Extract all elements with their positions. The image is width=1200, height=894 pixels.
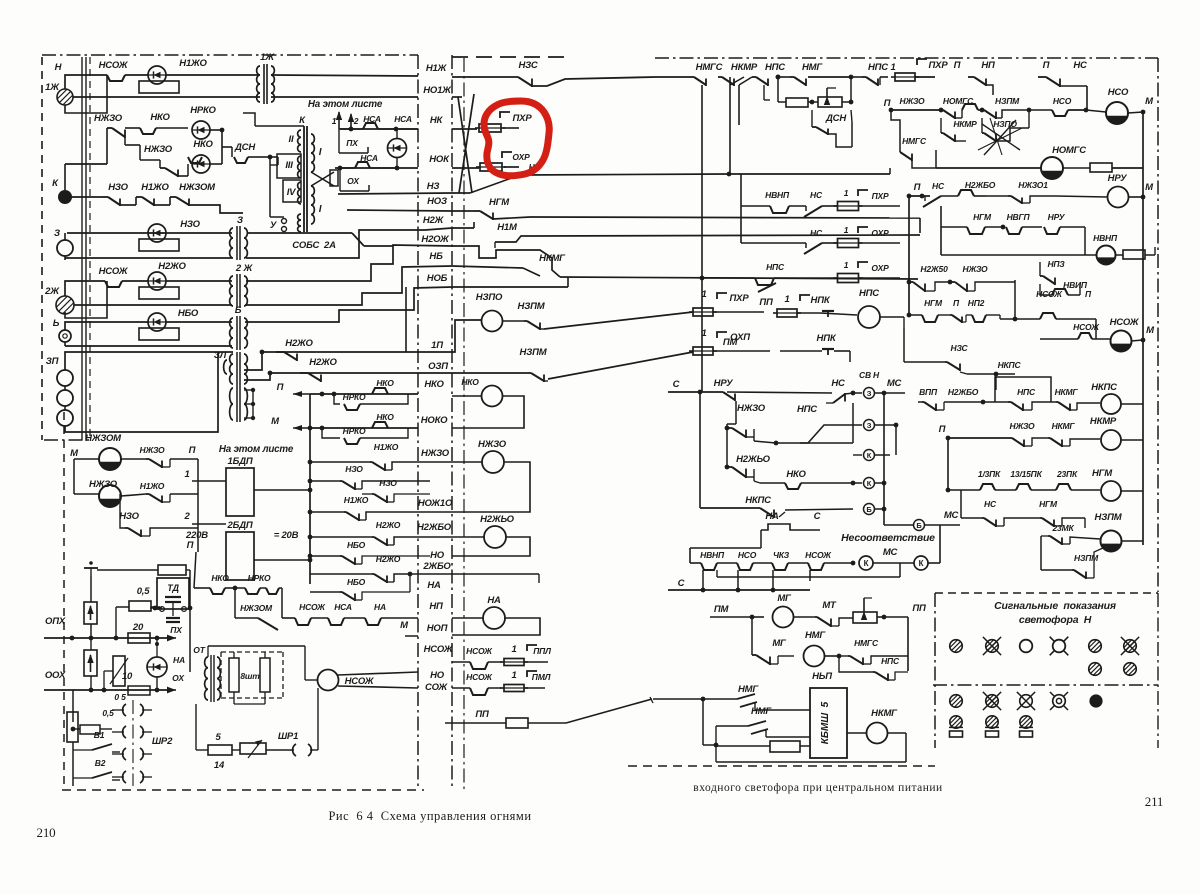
wire: [64, 164, 66, 190]
wire: [524, 320, 527, 322]
wire: [266, 64, 268, 104]
contact НВНП fuse row: [770, 206, 789, 213]
svg-text:2: 2: [183, 511, 190, 522]
wire: [156, 677, 158, 690]
wire: [1019, 726, 1033, 728]
svg-text:НЗО: НЗО: [180, 219, 200, 230]
wire: [225, 587, 235, 589]
svg-text:НЖЗО: НЖЗО: [94, 113, 123, 124]
wire: [1040, 284, 1052, 295]
junction dot: [155, 642, 159, 646]
winding У: [298, 214, 301, 232]
svg-text:НМГС: НМГС: [902, 136, 927, 146]
wire: [504, 687, 524, 689]
svg-text:Н1ЖО: Н1ЖО: [140, 481, 165, 491]
wire: [995, 489, 1016, 491]
wire: [727, 427, 732, 429]
svg-text:НС: НС: [1073, 60, 1087, 71]
wire: [154, 204, 170, 206]
wire Н2ОЖ from 2Ж: [246, 245, 452, 281]
wire: [386, 496, 388, 504]
svg-text:НГМ: НГМ: [1039, 499, 1058, 509]
svg-text:ПХ: ПХ: [170, 625, 183, 635]
wire: [727, 423, 736, 425]
wire: [752, 654, 756, 656]
wire: [153, 199, 155, 207]
wire ПМ: [780, 350, 822, 352]
wire: [1008, 401, 1011, 403]
wire: [716, 725, 748, 727]
svg-text:НКМГ: НКМГ: [871, 708, 898, 719]
wire: [1048, 437, 1050, 439]
wire: [396, 129, 398, 138]
wire: [142, 776, 152, 778]
wire: [1121, 490, 1143, 492]
svg-text:НКО: НКО: [211, 573, 229, 583]
wire: [911, 154, 913, 162]
wire: [830, 619, 832, 628]
wire: [1024, 445, 1032, 447]
svg-text:МС: МС: [944, 510, 959, 521]
wire: [1084, 227, 1086, 255]
wire: [1022, 226, 1042, 228]
transformer З left: [230, 228, 233, 258]
svg-text:НЗО: НЗО: [379, 478, 397, 488]
wire Н2ОЖ jog: [452, 246, 528, 258]
wire: [186, 569, 190, 571]
wire: [1079, 284, 1081, 295]
resistor above ТД: [158, 565, 186, 575]
wire: [801, 482, 853, 484]
wire НЖЗОМ row: [235, 617, 258, 619]
wire: [244, 403, 253, 405]
svg-text:НРКО: НРКО: [343, 392, 366, 402]
wire bracket top: [727, 392, 832, 393]
svg-text:I: I: [319, 147, 322, 158]
junction dot: [114, 636, 119, 641]
svg-text:ПМЛ: ПМЛ: [532, 672, 551, 682]
wire R0.5: [116, 606, 129, 608]
contact НКО jog2: [372, 422, 388, 428]
wire: [1086, 86, 1088, 110]
wire НГМ long: [530, 217, 920, 218]
junction dot: [907, 313, 912, 318]
wire: [986, 314, 1000, 316]
wire: [146, 493, 149, 495]
wire: [1071, 489, 1100, 491]
vertical x282: [281, 588, 283, 618]
wire: [812, 126, 816, 128]
svg-text:23ПК: 23ПК: [1056, 469, 1078, 479]
legend lamp yellow crossed: [986, 640, 999, 653]
wire: [166, 617, 180, 619]
wire: [753, 469, 755, 481]
junction: [727, 172, 732, 177]
wire: [474, 210, 480, 212]
circle: [1053, 695, 1066, 708]
wire НЗ right: [452, 192, 470, 194]
wire ДСН down: [269, 157, 271, 217]
wire: [150, 528, 198, 536]
wire: [899, 151, 901, 153]
wire НКО circle row: [452, 395, 481, 397]
wire: [264, 652, 266, 658]
wire: [777, 312, 797, 314]
svg-text:ПП: ПП: [475, 709, 489, 720]
lamp НРКО: [192, 121, 210, 139]
wire: [723, 392, 735, 400]
contact НСО bridge: [737, 563, 753, 570]
wire: [877, 616, 884, 618]
wire: [342, 592, 355, 600]
contact 1/3ПК: [980, 484, 995, 490]
svg-text:1: 1: [890, 62, 895, 73]
junction dot: [701, 697, 706, 702]
wire: [524, 687, 545, 689]
wire: [296, 354, 298, 362]
svg-text:НКМР: НКМР: [731, 62, 758, 73]
wire: [752, 616, 764, 618]
svg-text:НРКО: НРКО: [190, 105, 216, 116]
wire: [726, 424, 728, 428]
wire: [764, 99, 770, 101]
wire: [895, 672, 908, 680]
vertical НРУ to НЖЗО: [735, 401, 737, 424]
tap circle 1: [282, 219, 287, 224]
wire К: [65, 196, 102, 198]
vertical НПС-ДСН: [777, 77, 779, 102]
svg-text:НЗО: НЗО: [345, 464, 363, 474]
border top-left box: [42, 54, 418, 56]
wire: [785, 509, 853, 510]
wire НСА row: [339, 128, 363, 130]
wire: [531, 79, 533, 88]
svg-text:23МК: 23МК: [1052, 523, 1075, 533]
svg-text:НПС: НПС: [766, 262, 785, 272]
wire БДП out 1: [254, 489, 310, 491]
wire: [913, 282, 925, 291]
wire НЗ long: [520, 174, 729, 175]
svg-text:На этом листе: На этом листе: [219, 444, 294, 455]
wire: [1074, 570, 1086, 578]
svg-text:НРУ: НРУ: [714, 378, 734, 389]
contact Н2ЖБО row2: [958, 190, 974, 196]
wire: [746, 436, 754, 438]
svg-text:П: П: [939, 424, 946, 435]
terminal К: [58, 190, 72, 204]
wire: [805, 206, 807, 211]
wire: [527, 645, 537, 651]
ladder spine: [309, 394, 311, 584]
svg-text:ПП: ПП: [912, 603, 926, 614]
svg-text:М: М: [271, 416, 280, 427]
svg-text:МГ: МГ: [777, 593, 792, 604]
wire: [753, 429, 755, 441]
wire: [935, 282, 950, 291]
svg-text:НМГ: НМГ: [802, 62, 823, 73]
junction row3: [700, 276, 705, 281]
wire: [480, 166, 502, 168]
relay МГ: [773, 607, 794, 628]
svg-text:МС: МС: [887, 378, 902, 389]
wire: [112, 128, 125, 137]
wire НБ from 2Ж bottom: [245, 266, 452, 305]
wire mid block: [776, 442, 853, 444]
wire: [102, 196, 108, 198]
wire: [1032, 402, 1056, 410]
rung НЖЗО: [310, 461, 370, 463]
junction dot: [939, 108, 944, 113]
vertical x1015: [1014, 280, 1016, 319]
wire: [730, 77, 744, 85]
svg-text:НЖЗО: НЖЗО: [144, 144, 173, 155]
wire НЗС 2: [904, 361, 945, 363]
contact НСОЖ П: [1040, 313, 1056, 319]
wire: [945, 361, 947, 363]
wire: [1121, 637, 1139, 655]
wire НОБ from Б: [245, 287, 452, 322]
circle: [1056, 698, 1061, 703]
8шт box left: [220, 652, 222, 698]
wire: [943, 110, 955, 118]
svg-text:НСОЖ: НСОЖ: [466, 672, 493, 682]
wire: [150, 607, 162, 609]
wire НКО row: [760, 482, 785, 484]
svg-text:светофора Н: светофора Н: [1019, 614, 1092, 626]
capacitor lower: [166, 621, 180, 623]
border left box bottom: [44, 439, 90, 441]
wire: [912, 160, 936, 168]
wire: [1086, 577, 1094, 579]
junction dot: [1084, 108, 1089, 113]
wire: [1011, 402, 1023, 410]
wire: [518, 77, 532, 86]
wire: [354, 594, 356, 602]
wire: [1060, 85, 1087, 87]
relay НСО: [1106, 102, 1128, 124]
junction dot: [849, 75, 854, 80]
wire: [187, 164, 189, 176]
wire: [751, 729, 768, 734]
junction dot: [851, 561, 856, 566]
wire: [1121, 637, 1139, 655]
legend lamp white: [1020, 640, 1033, 653]
wire: [960, 372, 967, 374]
wire: [1043, 276, 1055, 284]
junction dot: [308, 479, 313, 484]
wire: [210, 163, 222, 165]
resistor НВНП: [1123, 250, 1145, 259]
svg-text:НПС: НПС: [868, 62, 888, 73]
svg-text:НВГП: НВГП: [1007, 212, 1031, 222]
wire: [753, 562, 772, 564]
wire: [790, 76, 794, 78]
core bar 2: [306, 126, 308, 232]
wire: [705, 79, 707, 87]
svg-text:1: 1: [844, 188, 849, 198]
wire: [928, 562, 940, 564]
svg-text:М: М: [1145, 182, 1154, 193]
contact НСОЖ fuse: [470, 662, 488, 669]
relay НМГ: [804, 646, 825, 667]
wire: [370, 461, 372, 463]
svg-text:НП: НП: [981, 60, 995, 71]
legend b5 black: [1089, 694, 1102, 707]
wire: [387, 544, 394, 546]
box 2Ж: [65, 281, 107, 318]
transformer Б right: [244, 318, 247, 348]
legend lamp 2nd row b: [1124, 663, 1137, 676]
wire: [839, 618, 853, 626]
junction dot: [89, 688, 94, 693]
wire: [500, 661, 504, 663]
wire: [64, 233, 66, 240]
wire 2: [192, 523, 226, 525]
lamp Н1ЖО: [148, 66, 166, 84]
wire: [689, 311, 693, 313]
wire: [1070, 409, 1077, 411]
circle: [859, 556, 873, 570]
wire: [168, 689, 176, 691]
wire: [827, 349, 829, 355]
junction dot: [907, 194, 912, 199]
relay НЖЗО: [482, 451, 504, 473]
wire: [827, 87, 836, 89]
resistor НРУ: [1090, 163, 1112, 172]
wire Н1Ж right: [452, 76, 516, 78]
relay НПС: [858, 306, 880, 328]
wire: [1077, 403, 1100, 410]
wire: [362, 592, 410, 600]
wire top right: [656, 76, 690, 78]
svg-text:НКПС: НКПС: [1091, 382, 1117, 393]
wire: [524, 661, 548, 663]
junction dot: [771, 588, 776, 593]
wire row y196: [910, 195, 930, 197]
wire: [362, 493, 372, 495]
wire: [1058, 402, 1070, 410]
svg-text:НЖЗО: НЖЗО: [421, 448, 450, 459]
wire: [990, 118, 1002, 155]
wire: [1068, 109, 1086, 111]
svg-text:ОЗП: ОЗП: [428, 361, 448, 372]
vertical НГМ right: [919, 218, 921, 233]
wire: [981, 118, 983, 133]
wire: [188, 199, 190, 207]
contact НСО: [1052, 110, 1068, 116]
terminal ЗП-2: [57, 390, 73, 406]
vertical ОХ: [339, 168, 341, 191]
wire: [871, 656, 908, 664]
lamp terminal 1Ж: [57, 89, 73, 105]
wire: [862, 658, 864, 666]
junction dot: [920, 194, 925, 199]
svg-text:Н2ЖО: Н2ЖО: [309, 357, 337, 368]
wire ОЗП from ЗЛ: [244, 373, 418, 380]
svg-text:ОТ: ОТ: [193, 645, 205, 655]
diagonal ПП to НМГ: [566, 699, 652, 723]
svg-text:НП: НП: [429, 601, 443, 612]
wire К upper: [65, 163, 107, 165]
wire: [789, 205, 806, 207]
junction dot: [882, 507, 887, 512]
legend lamp green crossed: [1124, 640, 1137, 653]
svg-text:Несоответствие: Несоответствие: [841, 532, 935, 544]
wire to ТД resistor: [97, 569, 158, 571]
svg-text:НБО: НБО: [347, 540, 366, 550]
wire: [1050, 536, 1062, 544]
svg-text:НЖЗОМ: НЖЗОМ: [179, 182, 216, 193]
wire: [354, 483, 356, 491]
vertical НКМР 2: [738, 85, 740, 125]
svg-text:З: З: [54, 228, 60, 239]
wire: [165, 596, 181, 598]
svg-text:ПХ: ПХ: [346, 138, 359, 148]
svg-text:НЗС: НЗС: [519, 60, 538, 71]
wire: [244, 389, 253, 391]
svg-text:НСА: НСА: [394, 114, 412, 124]
wire: [851, 122, 853, 147]
vertical x948: [947, 438, 949, 490]
junction dot: [102, 688, 107, 693]
wire: [488, 661, 502, 663]
vertical НПС relay down: [903, 328, 905, 362]
wire НСОЖ П row: [1000, 318, 1040, 320]
wire: [842, 101, 851, 103]
wire З top out: [248, 232, 352, 234]
wire ЗП loop: [65, 352, 218, 432]
svg-text:НС: НС: [810, 228, 823, 238]
wire: [690, 76, 694, 78]
wire: [778, 101, 786, 103]
svg-text:0,5: 0,5: [137, 586, 151, 597]
junction dot: [268, 371, 273, 376]
wire: [772, 570, 774, 590]
wire: [650, 697, 653, 703]
fuse ПП lower: [506, 718, 528, 728]
resistor box: [1020, 731, 1033, 737]
node: [268, 155, 273, 160]
wire: [947, 362, 960, 370]
wire: [1048, 535, 1050, 537]
svg-text:Н1ЖО: Н1ЖО: [179, 58, 207, 69]
svg-text:М: М: [1145, 96, 1154, 107]
wire: [125, 127, 140, 129]
wire: [895, 76, 915, 78]
wire: [502, 166, 506, 168]
column line x464: [463, 58, 465, 790]
wire: [984, 133, 996, 141]
diagonal to ОХП fuse: [548, 352, 693, 379]
wire: [156, 127, 188, 129]
svg-text:Н2ЖЬО: Н2ЖЬО: [480, 514, 515, 525]
wire: [941, 109, 943, 111]
svg-text:НКО: НКО: [376, 378, 394, 388]
vertical line x86: [85, 57, 87, 440]
legend lamp green: [1089, 640, 1102, 653]
wire: [732, 467, 746, 477]
wire: [983, 637, 1001, 655]
wire: [984, 120, 1016, 155]
junction dot: [1141, 110, 1146, 115]
junction dot: [946, 488, 951, 493]
wire: [955, 282, 967, 291]
svg-text:ДСН: ДСН: [825, 113, 847, 124]
wire: [260, 587, 266, 589]
wire: [156, 644, 158, 657]
pot 14: [240, 743, 266, 754]
fuse В: [67, 712, 78, 742]
